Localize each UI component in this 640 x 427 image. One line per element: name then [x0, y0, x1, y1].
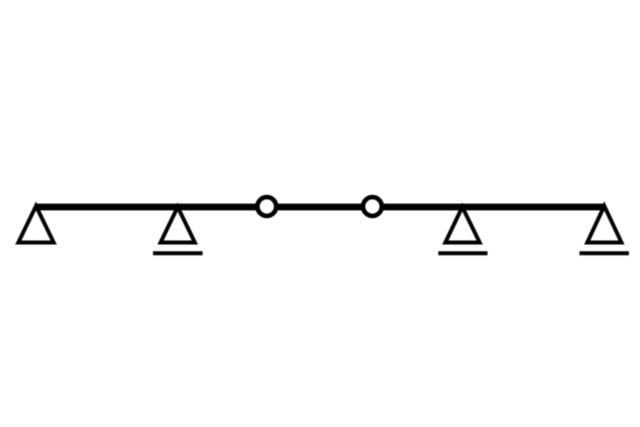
hinge H1: [257, 197, 276, 216]
beam: [35, 204, 605, 211]
pin support A triangle: [18, 206, 53, 243]
roller support C triangle: [445, 207, 479, 243]
roller support D base line: [580, 251, 629, 255]
roller support B triangle: [161, 207, 195, 243]
roller support C base line: [438, 251, 487, 255]
roller support B base line: [153, 251, 203, 255]
roller support D triangle: [587, 206, 621, 243]
hinge H2: [363, 197, 382, 216]
